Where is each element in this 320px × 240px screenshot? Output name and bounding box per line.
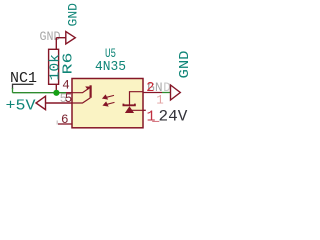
svg-text:4: 4 [62, 78, 70, 92]
wire resistor bottom to junction [55, 84, 57, 92]
pin 2 stub [143, 92, 162, 94]
svg-text:24V: 24V [159, 108, 188, 126]
phototransistor collector (to pin 5) [72, 98, 90, 103]
svg-text:4N35: 4N35 [95, 60, 126, 75]
svg-text:1: 1 [156, 93, 164, 107]
pin 6 end tick [56, 121, 58, 125]
light arrow 2 [104, 102, 115, 106]
wire pin2 to ground (green) [162, 92, 171, 94]
svg-text:GND: GND [177, 51, 193, 79]
LED triangle [125, 106, 134, 113]
phototransistor base bar [89, 85, 91, 98]
svg-text:5: 5 [65, 92, 73, 106]
LED top lead (to pin 2) [130, 92, 144, 106]
pin 4 stub [66, 92, 72, 94]
ground symbol (arrow right, top) [56, 32, 75, 45]
svg-text:+5V: +5V [6, 97, 36, 114]
pin 1 stub [143, 109, 146, 111]
phototransistor emitter (to pin 4) [72, 87, 90, 92]
wire net to pin 4 (green) [13, 88, 67, 93]
svg-text:6: 6 [61, 113, 69, 127]
pin 6 stub [58, 123, 72, 125]
svg-text:R6: R6 [61, 53, 77, 75]
LED cathode bar [123, 104, 134, 106]
LED bottom lead (to pin 1) [130, 110, 144, 113]
+5V supply symbol (arrow left) [36, 96, 72, 109]
svg-text:GND: GND [66, 3, 81, 27]
optocoupler U5 body [72, 79, 143, 128]
wire resistor top to ground [55, 38, 57, 50]
resistor R6 [49, 49, 59, 84]
svg-text:2: 2 [146, 81, 154, 96]
wire NC1 stub (dark) [13, 84, 34, 89]
svg-text:U5: U5 [105, 46, 116, 61]
ground symbol (arrow right, right side) [171, 85, 181, 100]
emitter arrowhead [85, 86, 90, 90]
junction dot [53, 90, 59, 96]
light arrow 1 [103, 95, 114, 99]
